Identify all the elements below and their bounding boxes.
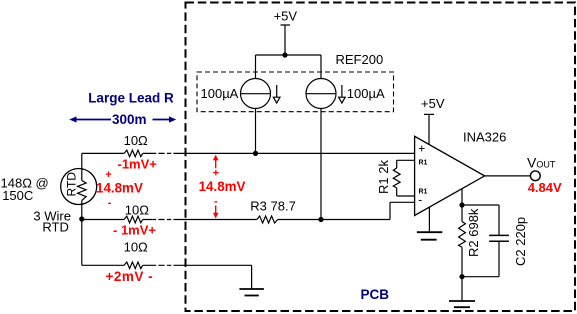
svg-text:-: - <box>214 196 218 208</box>
svg-text:+: + <box>105 169 111 181</box>
svg-text:300m: 300m <box>112 112 147 127</box>
wire I1 output down to top lead <box>255 109 257 154</box>
wire I2 output down to mid lead <box>320 109 322 220</box>
svg-text:+: + <box>418 141 425 155</box>
svg-text:10Ω: 10Ω <box>124 240 148 255</box>
current arrow I2 <box>341 85 343 97</box>
svg-text:+2mV -: +2mV - <box>106 269 154 284</box>
node top lead junction <box>253 151 258 156</box>
svg-text:REF200: REF200 <box>336 52 384 67</box>
svg-text:R1: R1 <box>419 189 428 196</box>
svg-text:C2 220p: C2 220p <box>513 217 528 266</box>
svg-text:100µA: 100µA <box>347 86 385 101</box>
arrow 14.8mV minus <box>215 206 217 214</box>
ground lead return <box>239 288 264 290</box>
wire mid lead to R3 <box>173 219 257 221</box>
wire mid lead left <box>82 219 124 221</box>
resistor R2 698k <box>459 222 466 248</box>
wire op-amp ground pin <box>428 207 430 232</box>
wire bottom lead left <box>82 219 124 265</box>
RTD sensor <box>61 169 97 205</box>
svg-text:R2 698k: R2 698k <box>466 208 481 257</box>
resistor lead 10ohm bottom <box>124 262 143 269</box>
svg-text:R3 78.7: R3 78.7 <box>250 199 296 214</box>
PCB dashed border <box>186 3 576 312</box>
node feedback top <box>459 202 464 207</box>
svg-text:10Ω: 10Ω <box>124 133 148 148</box>
svg-text:PCB: PCB <box>361 287 390 302</box>
wire R3 to inverting input <box>278 202 415 219</box>
svg-text:14.8mV: 14.8mV <box>199 179 246 194</box>
wire output <box>485 175 531 177</box>
current arrow I1 <box>276 85 278 97</box>
wire R2 bottom <box>461 247 463 301</box>
svg-text:R1: R1 <box>419 159 428 166</box>
capacitor C2 220p <box>489 234 509 236</box>
svg-text:100µA: 100µA <box>201 86 239 101</box>
wire +5V stem REF200 <box>281 25 291 55</box>
terminal VOUT <box>530 171 540 181</box>
resistor lead 10ohm mid <box>124 216 143 223</box>
svg-text:-: - <box>108 197 112 209</box>
red measurement arrows column <box>213 155 219 219</box>
svg-text:R1 2k: R1 2k <box>376 160 391 194</box>
wire +5V rail to current sources <box>256 55 322 79</box>
resistor lead 10ohm top <box>124 150 143 157</box>
wire op-amp +5V pin <box>424 114 434 144</box>
wire capacitor branch top <box>462 205 499 235</box>
REF200 dashed box <box>197 72 394 112</box>
pin R1 top stub <box>397 160 415 168</box>
arrow 14.8mV plus <box>215 160 217 169</box>
svg-text:RTD: RTD <box>42 219 68 234</box>
wire bottom lead break <box>143 264 172 266</box>
wire bottom lead to ground <box>173 265 251 289</box>
op-amp U1 INA326 <box>415 136 485 215</box>
svg-text:10Ω: 10Ω <box>125 203 149 218</box>
svg-text:+5V: +5V <box>421 96 445 111</box>
resistor R3 78.7 <box>257 216 278 223</box>
wire top lead to op-amp <box>173 152 414 154</box>
resistor R1 2k <box>393 168 400 188</box>
svg-text:RTD: RTD <box>65 172 79 197</box>
svg-text:+5V: +5V <box>274 9 298 24</box>
wire top lead break <box>143 152 172 154</box>
node mid lead junction <box>318 217 323 222</box>
ground feedback <box>449 300 475 302</box>
pin R1 bottom stub <box>397 188 415 196</box>
wire feedback from output edge <box>461 189 463 222</box>
svg-text:INA326: INA326 <box>463 130 506 145</box>
node RTD bottom <box>79 216 84 221</box>
ground op-amp <box>417 231 442 233</box>
svg-text:- 1mV+: - 1mV+ <box>113 222 156 237</box>
wire capacitor bottom <box>462 241 499 277</box>
svg-text:14.8mV: 14.8mV <box>96 181 143 196</box>
wire top lead left <box>82 153 124 169</box>
current source I1 100uA <box>241 79 271 109</box>
current source I2 100uA <box>306 79 336 109</box>
navy dimension arrows 300m <box>69 116 176 122</box>
svg-text:Large Lead R: Large Lead R <box>88 90 174 105</box>
wire mid lead break <box>143 219 172 221</box>
svg-text:4.84V: 4.84V <box>528 180 562 195</box>
svg-text:-1mV+: -1mV+ <box>118 157 158 172</box>
svg-text:+: + <box>213 167 219 179</box>
node +5V junction <box>282 52 287 57</box>
node feedback bottom <box>459 274 464 279</box>
svg-text:150C: 150C <box>2 188 33 203</box>
